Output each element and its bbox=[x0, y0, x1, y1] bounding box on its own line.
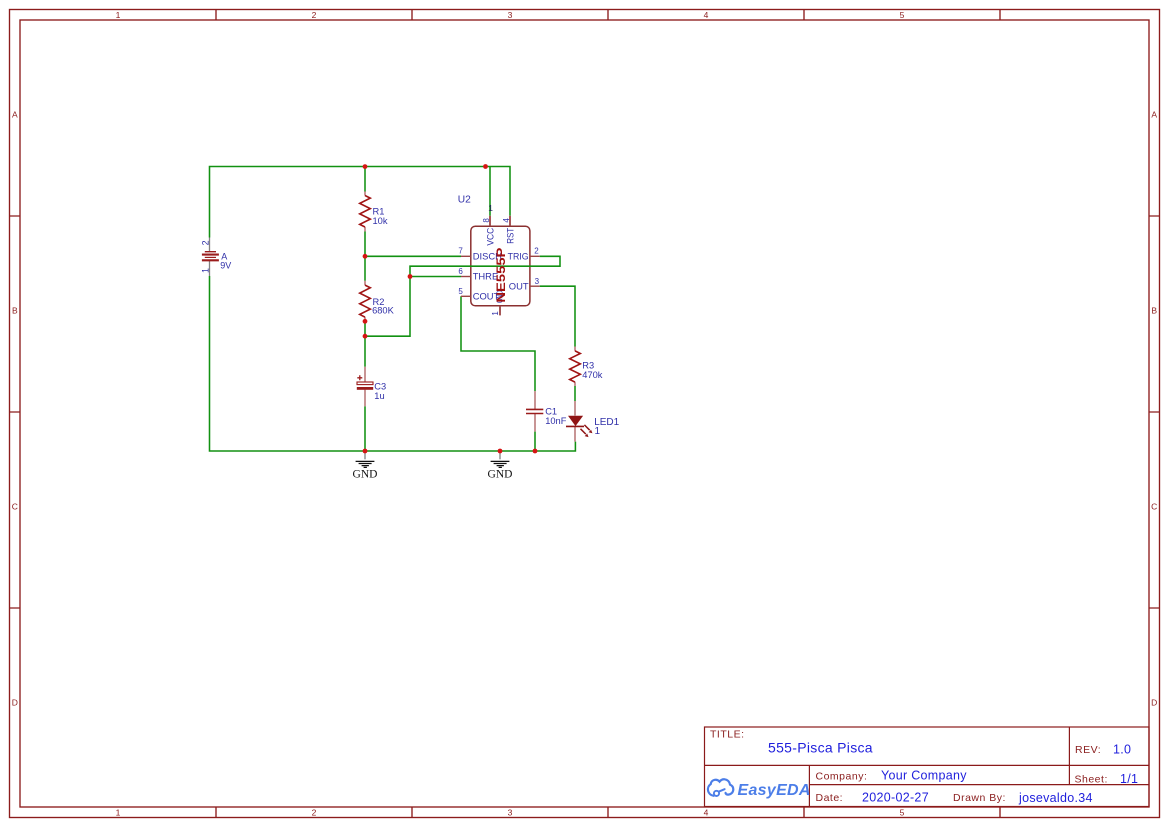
svg-text:1/1: 1/1 bbox=[1120, 772, 1138, 786]
svg-text:1: 1 bbox=[595, 426, 601, 437]
svg-text:VCC: VCC bbox=[485, 228, 496, 246]
svg-text:1: 1 bbox=[116, 10, 121, 20]
svg-text:RST: RST bbox=[504, 228, 515, 244]
svg-text:A: A bbox=[1151, 110, 1157, 120]
svg-text:6: 6 bbox=[458, 267, 463, 276]
svg-text:1: 1 bbox=[200, 268, 210, 273]
svg-text:1u: 1u bbox=[374, 391, 384, 401]
svg-text:8: 8 bbox=[482, 218, 491, 223]
svg-text:1.0: 1.0 bbox=[1113, 743, 1131, 757]
svg-text:C3: C3 bbox=[374, 381, 386, 391]
svg-text:2: 2 bbox=[312, 10, 317, 20]
svg-text:1: 1 bbox=[116, 807, 121, 817]
svg-text:TITLE:: TITLE: bbox=[710, 729, 745, 741]
svg-text:REV:: REV: bbox=[1075, 744, 1101, 756]
svg-text:1: 1 bbox=[488, 203, 493, 213]
svg-text:josevaldo.34: josevaldo.34 bbox=[1018, 791, 1093, 805]
svg-text:3: 3 bbox=[535, 277, 540, 286]
svg-text:4: 4 bbox=[502, 218, 511, 223]
svg-text:7: 7 bbox=[458, 247, 463, 256]
svg-text:5: 5 bbox=[458, 287, 463, 296]
svg-text:D: D bbox=[12, 698, 18, 708]
svg-text:Your Company: Your Company bbox=[881, 769, 967, 783]
svg-text:3: 3 bbox=[508, 10, 513, 20]
svg-text:4: 4 bbox=[704, 10, 709, 20]
svg-text:B: B bbox=[1151, 306, 1157, 316]
svg-text:4: 4 bbox=[704, 807, 709, 817]
svg-text:OUT: OUT bbox=[509, 281, 529, 292]
svg-text:GND: GND bbox=[488, 469, 513, 481]
svg-text:680K: 680K bbox=[372, 306, 395, 316]
svg-text:TRIG: TRIG bbox=[508, 251, 529, 262]
svg-text:470k: 470k bbox=[582, 370, 603, 380]
svg-text:Drawn By:: Drawn By: bbox=[953, 792, 1006, 804]
svg-text:Date:: Date: bbox=[816, 792, 844, 804]
svg-text:A: A bbox=[12, 110, 18, 120]
svg-text:D: D bbox=[1151, 698, 1157, 708]
svg-text:1: 1 bbox=[491, 311, 500, 316]
svg-text:B: B bbox=[12, 306, 18, 316]
svg-text:5: 5 bbox=[900, 807, 905, 817]
svg-text:Company:: Company: bbox=[816, 771, 868, 783]
svg-text:NE555P: NE555P bbox=[496, 247, 508, 302]
svg-text:2: 2 bbox=[201, 240, 211, 245]
svg-text:5: 5 bbox=[900, 10, 905, 20]
svg-text:10k: 10k bbox=[373, 216, 388, 226]
svg-text:C: C bbox=[1151, 502, 1157, 512]
svg-text:U2: U2 bbox=[458, 194, 471, 205]
svg-text:10nF: 10nF bbox=[545, 416, 567, 426]
svg-text:555-Pisca Pisca: 555-Pisca Pisca bbox=[768, 740, 873, 756]
svg-text:C: C bbox=[12, 502, 18, 512]
svg-text:9V: 9V bbox=[220, 261, 231, 271]
svg-text:GND: GND bbox=[353, 469, 378, 481]
svg-text:2: 2 bbox=[534, 247, 539, 256]
svg-text:2020-02-27: 2020-02-27 bbox=[862, 791, 929, 805]
svg-text:EasyEDA: EasyEDA bbox=[738, 782, 811, 799]
svg-text:R1: R1 bbox=[373, 206, 385, 216]
svg-text:3: 3 bbox=[508, 807, 513, 817]
svg-text:Sheet:: Sheet: bbox=[1075, 774, 1108, 786]
svg-text:THRE: THRE bbox=[473, 271, 499, 282]
svg-text:2: 2 bbox=[312, 807, 317, 817]
